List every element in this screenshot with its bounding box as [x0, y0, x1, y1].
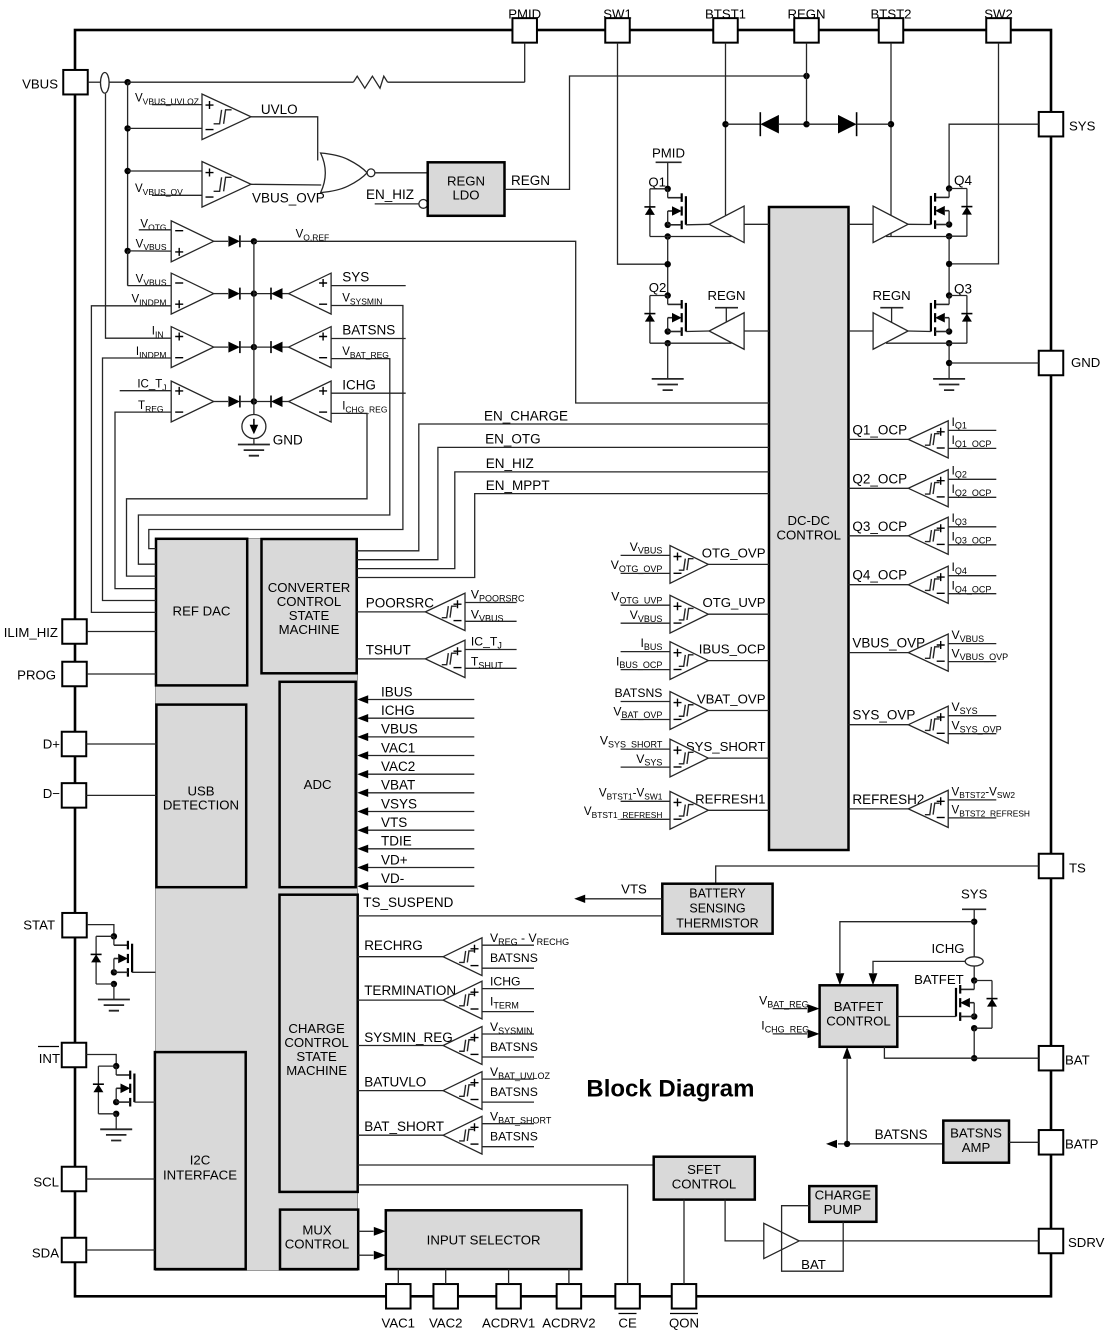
diode row3 right	[254, 346, 271, 348]
svg-text:BATSNS: BATSNS	[342, 323, 395, 338]
svg-text:BTST2: BTST2	[870, 7, 911, 22]
svg-text:RECHRG: RECHRG	[364, 938, 423, 953]
amplifier ICHG/I_CHG_REG	[289, 381, 332, 422]
svg-text:ADC: ADC	[304, 777, 332, 792]
svg-text:TDIE: TDIE	[381, 834, 412, 849]
node row4	[251, 398, 257, 404]
ground INT	[115, 1114, 117, 1130]
wire input selector to VAC2	[445, 1269, 447, 1284]
svg-text:BATSNS: BATSNS	[490, 1040, 538, 1054]
svg-text:IC_TJ: IC_TJ	[471, 635, 502, 651]
node REGN boot	[803, 121, 809, 127]
svg-text:CE: CE	[618, 1316, 637, 1331]
svg-text:VTS: VTS	[621, 882, 647, 897]
block USB DETECTION	[156, 705, 246, 888]
wire INT gate from I2C	[134, 1101, 155, 1103]
svg-text:BAT: BAT	[801, 1257, 826, 1272]
VBUS vertical sense line	[127, 82, 129, 285]
ground Q3	[933, 379, 965, 390]
ground Q2	[667, 343, 669, 379]
bootstrap diode BTST2	[807, 123, 839, 125]
diode row2 left	[214, 293, 228, 295]
svg-text:VTS: VTS	[381, 815, 407, 830]
svg-text:Q4: Q4	[954, 173, 973, 188]
wire NOR output to REGN LDO	[375, 172, 428, 174]
svg-text:ICHG: ICHG	[342, 378, 376, 393]
svg-text:BATFET: BATFET	[914, 972, 964, 987]
wire D- to USB detection	[86, 794, 156, 796]
svg-text:CONTROL: CONTROL	[284, 1035, 348, 1050]
wire D+ to USB detection	[86, 743, 156, 745]
svg-text:Q1_OCP: Q1_OCP	[852, 422, 907, 437]
block ADC	[280, 682, 356, 887]
wire reference node column	[253, 241, 255, 414]
pin QON (active low)	[672, 1284, 697, 1309]
svg-text:REFRESH1: REFRESH1	[695, 791, 765, 806]
node VBUS junction	[124, 79, 130, 85]
svg-text:CONVERTER: CONVERTER	[268, 580, 351, 595]
svg-text:REGN: REGN	[707, 288, 745, 303]
pin SDA	[62, 1238, 87, 1263]
wire BTST2 vertical	[890, 43, 892, 237]
svg-text:LDO: LDO	[452, 188, 479, 203]
wire ILIM_HIZ to REF DAC	[87, 631, 156, 633]
svg-text:MUX: MUX	[302, 1223, 332, 1238]
svg-text:SW2: SW2	[984, 7, 1013, 22]
svg-text:IBUS: IBUS	[381, 684, 413, 699]
comparator VBUS_OVP	[202, 162, 251, 208]
gate driver Q4	[873, 206, 908, 243]
svg-text:UVLO: UVLO	[261, 102, 298, 117]
pin GND	[1039, 351, 1064, 376]
wire Q3 source rail	[886, 342, 949, 344]
pin INT (active low)	[62, 1043, 87, 1068]
svg-text:SYS_SHORT: SYS_SHORT	[686, 739, 766, 754]
svg-text:SYS: SYS	[342, 270, 369, 285]
wire Q4 source rail	[886, 236, 949, 238]
svg-text:CHARGE: CHARGE	[815, 1188, 872, 1203]
svg-text:SDRV: SDRV	[1068, 1235, 1105, 1250]
wire Q1 source rail	[668, 236, 732, 238]
wire ellipse to VBUS node	[109, 81, 128, 83]
svg-text:CONTROL: CONTROL	[776, 528, 840, 543]
svg-text:BATSNS: BATSNS	[875, 1127, 928, 1142]
pin BTST1	[713, 18, 738, 43]
block MUX CONTROL	[280, 1210, 358, 1270]
wire QON to SFET control	[683, 1200, 685, 1284]
svg-text:VAC2: VAC2	[381, 759, 415, 774]
svg-text:BATTERY: BATTERY	[689, 887, 746, 901]
amplifier V_VBUS/V_INDPM	[171, 273, 214, 314]
wire input selector to ACDRV1	[508, 1269, 510, 1284]
wire input selector to ACDRV2	[568, 1269, 570, 1284]
pin SDRV	[1039, 1229, 1064, 1254]
svg-text:STATE: STATE	[289, 608, 330, 623]
svg-text:SCL: SCL	[33, 1175, 59, 1190]
svg-text:BAT: BAT	[1065, 1053, 1090, 1068]
svg-text:I2C: I2C	[190, 1153, 211, 1168]
svg-text:EN_HIZ: EN_HIZ	[486, 456, 534, 471]
node row3	[251, 344, 257, 350]
block I2C INTERFACE	[155, 1052, 246, 1269]
SDRV gate driver	[764, 1223, 799, 1258]
svg-text:Q1: Q1	[648, 175, 666, 190]
svg-text:ICHG: ICHG	[490, 975, 520, 989]
pin BAT	[1039, 1046, 1064, 1071]
gate driver Q2	[709, 313, 744, 350]
svg-text:TS: TS	[1069, 861, 1086, 876]
svg-text:DETECTION: DETECTION	[163, 798, 239, 813]
svg-text:BATSNS: BATSNS	[490, 1085, 538, 1099]
svg-text:Q3: Q3	[954, 282, 972, 297]
svg-text:INT: INT	[39, 1051, 60, 1066]
block REGN LDO	[428, 162, 505, 216]
resistor VBUS-PMID	[353, 76, 387, 88]
pin SYS	[1039, 112, 1064, 137]
wire SFET control to gate driver	[725, 1200, 764, 1241]
svg-text:VBAT_OVP: VBAT_OVP	[697, 692, 766, 707]
pin VAC2	[433, 1284, 458, 1309]
svg-text:Q4_OCP: Q4_OCP	[852, 568, 907, 583]
svg-text:REGN: REGN	[511, 173, 550, 188]
svg-text:BATSNS: BATSNS	[490, 951, 538, 965]
wire VBUS to sense ellipse	[88, 81, 101, 83]
wire INT pin to FET	[86, 1055, 116, 1067]
wire ellipse to BATFET	[973, 966, 975, 981]
svg-text:ACDRV2: ACDRV2	[542, 1316, 595, 1331]
wire BATFET control to BAT rail	[884, 1047, 974, 1058]
block BATTERY SENSING THERMISTOR	[662, 884, 772, 934]
svg-text:VAC1: VAC1	[381, 740, 415, 755]
wire SW2 node	[948, 237, 950, 296]
svg-text:Q3_OCP: Q3_OCP	[852, 519, 907, 534]
wire BATFET source to BAT	[973, 1028, 975, 1058]
amplifier SYS/V_SYSMIN	[289, 273, 332, 314]
pin TS	[1039, 854, 1064, 879]
svg-text:ICHG: ICHG	[381, 703, 415, 718]
bootstrap diode BTST1	[726, 123, 761, 125]
transistor INT driver	[113, 1063, 119, 1069]
svg-text:GND: GND	[273, 433, 303, 448]
svg-text:SDA: SDA	[32, 1246, 59, 1261]
block SFET CONTROL	[654, 1157, 755, 1200]
pin BATP	[1039, 1130, 1064, 1155]
wire BATSNS to BATFET control bottom	[846, 1059, 848, 1144]
wire VBUS rail to resistor and PMID	[128, 81, 354, 83]
svg-text:REGN: REGN	[873, 288, 911, 303]
wire TS pin to thermistor block	[716, 866, 1039, 884]
svg-text:EN_CHARGE: EN_CHARGE	[484, 408, 568, 423]
svg-text:D−: D−	[43, 786, 61, 801]
svg-text:SYS: SYS	[961, 886, 988, 901]
VBUS_OVP + input wire	[128, 170, 202, 172]
svg-text:DC-DC: DC-DC	[787, 513, 830, 528]
svg-text:MACHINE: MACHINE	[286, 1063, 347, 1078]
svg-text:USB: USB	[187, 784, 214, 799]
wire ICHG to BATFET control top	[873, 961, 965, 973]
wire charge CSM to SFET control	[358, 1164, 654, 1166]
svg-text:TS_SUSPEND: TS_SUSPEND	[363, 895, 453, 910]
svg-text:TSHUT: TSHUT	[366, 643, 411, 658]
svg-text:GND: GND	[1071, 355, 1100, 370]
svg-text:OTG_UVP: OTG_UVP	[702, 595, 765, 610]
svg-text:BATSNS: BATSNS	[615, 686, 663, 700]
wire SYS to BATFET control top	[840, 922, 974, 973]
svg-text:EN_OTG: EN_OTG	[485, 432, 541, 447]
block CHARGE CONTROL STATE MACHINE	[280, 895, 358, 1192]
svg-text:PMID: PMID	[652, 146, 685, 161]
svg-text:CHARGE: CHARGE	[288, 1021, 345, 1036]
svg-text:BATP: BATP	[1065, 1137, 1099, 1152]
wire REGN pin vertical	[806, 43, 808, 125]
block BATFET CONTROL	[820, 985, 898, 1047]
wire BAT rail to BAT pin	[974, 1057, 1038, 1059]
pin CE (active low)	[615, 1284, 640, 1309]
svg-text:VBUS_OVP: VBUS_OVP	[252, 191, 325, 206]
svg-text:BATSNS: BATSNS	[950, 1126, 1002, 1141]
block CONVERTER CONTROL STATE MACHINE	[262, 539, 357, 673]
svg-text:ICHG: ICHG	[932, 941, 965, 956]
block INPUT SELECTOR	[386, 1210, 582, 1269]
block BATSNS AMP	[943, 1121, 1009, 1163]
svg-text:EN_HIZ: EN_HIZ	[366, 187, 414, 202]
svg-text:POORSRC: POORSRC	[366, 595, 435, 610]
svg-text:Q2_OCP: Q2_OCP	[852, 471, 907, 486]
svg-text:QON: QON	[669, 1316, 699, 1331]
wire MUX to input selector 2	[358, 1254, 373, 1256]
svg-text:VAC2: VAC2	[429, 1316, 462, 1331]
svg-text:SYSMIN_REG: SYSMIN_REG	[364, 1030, 453, 1045]
svg-text:ACDRV1: ACDRV1	[482, 1316, 535, 1331]
wire BATSNS AMP to BATP pin	[1009, 1141, 1039, 1143]
svg-text:OTG_OVP: OTG_OVP	[702, 545, 766, 560]
block REF DAC	[156, 539, 247, 686]
svg-text:REFRESH2: REFRESH2	[852, 792, 924, 807]
wire BATFET gate from control block	[897, 1016, 956, 1018]
svg-text:PMID: PMID	[508, 7, 541, 22]
pin ACDRV2	[557, 1284, 582, 1309]
pin VAC1	[386, 1284, 411, 1309]
comparator UVLO	[202, 94, 251, 140]
central control block background	[156, 539, 358, 1271]
wire SW1 vertical	[618, 43, 668, 265]
svg-text:SYS: SYS	[1069, 119, 1096, 134]
current sense ellipse on VBUS	[101, 73, 110, 94]
current source to GND	[242, 415, 266, 439]
svg-text:MACHINE: MACHINE	[279, 622, 340, 637]
pin D+	[62, 732, 87, 757]
svg-text:D+: D+	[43, 737, 61, 752]
pin ILIM_HIZ	[62, 619, 87, 644]
wire input selector to VAC1	[397, 1269, 399, 1284]
wire PROG to REF DAC	[87, 673, 156, 675]
svg-text:VBAT: VBAT	[381, 778, 415, 793]
wire SCL to I2C	[86, 1178, 155, 1180]
transistor STAT driver	[111, 933, 117, 939]
block DC-DC CONTROL	[769, 207, 849, 850]
wire BTST1 vertical	[725, 43, 727, 216]
svg-text:SYS_OVP: SYS_OVP	[852, 708, 915, 723]
diode row3 left	[214, 346, 228, 348]
wire SDA to I2C	[86, 1249, 155, 1251]
NOR gate	[321, 153, 368, 193]
diode row2 right	[254, 293, 271, 295]
svg-text:REGN: REGN	[787, 7, 825, 22]
UVLO - input wire	[128, 127, 202, 129]
wire STAT gate from logic	[132, 971, 155, 973]
svg-text:VAC1: VAC1	[382, 1316, 415, 1331]
diode row1	[214, 240, 228, 242]
wire driver to SDRV pin	[799, 1240, 1038, 1242]
svg-text:AMP: AMP	[962, 1140, 991, 1155]
wire Q3 source to GND pin	[948, 343, 950, 379]
pin SCL	[62, 1167, 87, 1192]
pin PROG	[62, 662, 87, 687]
pin BTST2	[879, 18, 904, 43]
pin SW2	[986, 18, 1011, 43]
svg-text:PUMP: PUMP	[824, 1202, 862, 1217]
gate driver Q3	[873, 313, 908, 350]
svg-text:BATSNS: BATSNS	[490, 1130, 538, 1144]
amplifier I_IN/I_INDPM	[171, 327, 214, 368]
svg-text:Block Diagram: Block Diagram	[586, 1076, 754, 1103]
svg-text:VBUS_OVP: VBUS_OVP	[852, 636, 925, 651]
diode row4 right	[254, 401, 271, 403]
gate driver Q1	[709, 206, 744, 243]
wire SYS rail from Q4 drain	[949, 124, 1039, 188]
svg-text:SW1: SW1	[603, 7, 632, 22]
svg-text:VD+: VD+	[381, 852, 408, 867]
svg-text:Q2: Q2	[649, 280, 667, 295]
svg-text:INTERFACE: INTERFACE	[163, 1168, 237, 1183]
amplifier IC_TJ/T_REG	[171, 381, 214, 422]
svg-text:SFET: SFET	[687, 1162, 721, 1177]
svg-text:STAT: STAT	[23, 918, 55, 933]
node SYS sense	[971, 919, 977, 925]
node V_O,REF	[251, 238, 257, 244]
svg-text:STATE: STATE	[296, 1049, 337, 1064]
svg-text:CONTROL: CONTROL	[285, 1237, 349, 1252]
pin STAT	[62, 913, 87, 938]
svg-text:INPUT SELECTOR: INPUT SELECTOR	[427, 1233, 541, 1248]
svg-text:BATUVLO: BATUVLO	[364, 1075, 426, 1090]
node row2	[251, 290, 257, 296]
svg-text:PROG: PROG	[17, 668, 56, 683]
svg-text:EN_MPPT: EN_MPPT	[486, 478, 550, 493]
svg-text:CONTROL: CONTROL	[277, 594, 341, 609]
svg-text:VBUS: VBUS	[22, 77, 58, 92]
wire STAT pin to FET	[87, 925, 114, 937]
svg-text:IBUS_OCP: IBUS_OCP	[699, 642, 766, 657]
node REGN junction	[803, 73, 809, 79]
svg-text:VSYS: VSYS	[381, 796, 417, 811]
amplifier V_OTG/V_VBUS	[171, 221, 214, 262]
svg-text:SENSING: SENSING	[689, 902, 745, 916]
wire SW2 vertical	[949, 43, 998, 264]
pin SW1	[605, 18, 630, 43]
svg-text:ILIM_HIZ: ILIM_HIZ	[4, 625, 58, 640]
ground symbol below current source	[253, 439, 255, 445]
diode row4 left	[214, 401, 228, 403]
wire CE to charge CSM	[358, 1185, 628, 1284]
pin ACDRV1	[496, 1284, 520, 1309]
pin REGN	[794, 18, 819, 43]
wire Q2 source rail	[668, 342, 732, 344]
svg-text:TERMINATION: TERMINATION	[364, 983, 456, 998]
svg-text:BTST1: BTST1	[705, 7, 746, 22]
svg-text:REGN: REGN	[447, 174, 485, 189]
svg-text:VD-: VD-	[381, 871, 404, 886]
pin D-	[62, 783, 87, 808]
wire MUX to input selector 1	[358, 1230, 373, 1232]
svg-text:REF DAC: REF DAC	[173, 604, 231, 619]
ground STAT	[113, 984, 115, 1000]
svg-text:CONTROL: CONTROL	[826, 1014, 890, 1029]
amplifier BATSNS/V_BAT_REG	[289, 327, 332, 368]
pin PMID	[512, 18, 537, 43]
svg-text:VBUS: VBUS	[381, 722, 418, 737]
block CHARGE PUMP	[809, 1186, 876, 1222]
svg-text:THERMISTOR: THERMISTOR	[676, 917, 758, 931]
pin VBUS	[63, 70, 88, 95]
svg-text:CONTROL: CONTROL	[672, 1177, 736, 1192]
svg-text:BAT_SHORT: BAT_SHORT	[364, 1119, 444, 1134]
wire SW1 node	[667, 237, 669, 296]
svg-text:BATFET: BATFET	[834, 999, 884, 1014]
wire up to PMID pin	[524, 43, 526, 82]
